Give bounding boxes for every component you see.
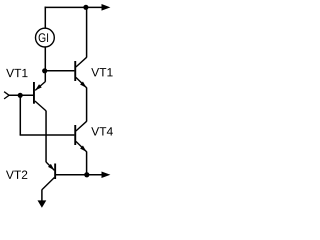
node junction on input wire	[18, 93, 23, 98]
wire VT1 left collector down to VT2 emitter	[45, 111, 47, 163]
node junction bottom rail	[84, 172, 89, 177]
label VT4	[91, 127, 113, 135]
label VT1 (top right)	[91, 68, 112, 76]
label GI	[39, 33, 48, 42]
transistor VT1 (top right) base bar	[74, 61, 76, 81]
transistor VT4 base bar	[74, 125, 76, 145]
wire node to VT1 right base	[45, 70, 75, 72]
output arrow down (VT2 collector)	[38, 200, 47, 207]
wire top rail	[45, 6, 102, 8]
transistor VT1 (left) base bar	[33, 82, 35, 104]
wire from top rail down to G1	[44, 7, 46, 29]
label VT1 (left)	[6, 69, 27, 77]
current source G1 circle	[36, 28, 55, 47]
transistor VT2 collector	[42, 178, 55, 190]
transistor VT4 emitter	[76, 141, 87, 152]
wire VT2 collector down	[41, 190, 43, 201]
wire G1 bottom to node	[44, 47, 46, 71]
transistor VT1 (left) emitter with arrow to bar	[35, 82, 45, 91]
node junction below G1	[42, 68, 47, 73]
transistor VT2 emitter with arrow to bar	[46, 162, 54, 170]
output arrow top right	[102, 4, 111, 11]
transistor VT1 (left) collector	[35, 101, 46, 111]
wire from input node down	[19, 95, 21, 135]
wire VT1 left emitter up to node	[44, 71, 46, 82]
label VT2	[6, 171, 27, 179]
transistor VT2 base bar	[54, 164, 56, 180]
wire across to VT4 base	[20, 134, 75, 136]
input terminal arrow	[4, 92, 9, 99]
transistor VT1 (top right) collector	[76, 57, 87, 67]
wire input to VT1 left base	[9, 94, 33, 96]
wire VT4 emitter to bottom rail	[86, 152, 88, 175]
output arrow bottom right	[102, 171, 111, 178]
wire bottom rail	[56, 174, 102, 176]
node junction top rail	[83, 5, 88, 10]
transistor VT4 collector	[76, 121, 87, 131]
wire VT1 emitter to VT4 collector	[86, 88, 88, 122]
transistor VT1 (top right) emitter	[76, 77, 87, 88]
wire VT1 collector to top rail	[86, 7, 88, 58]
